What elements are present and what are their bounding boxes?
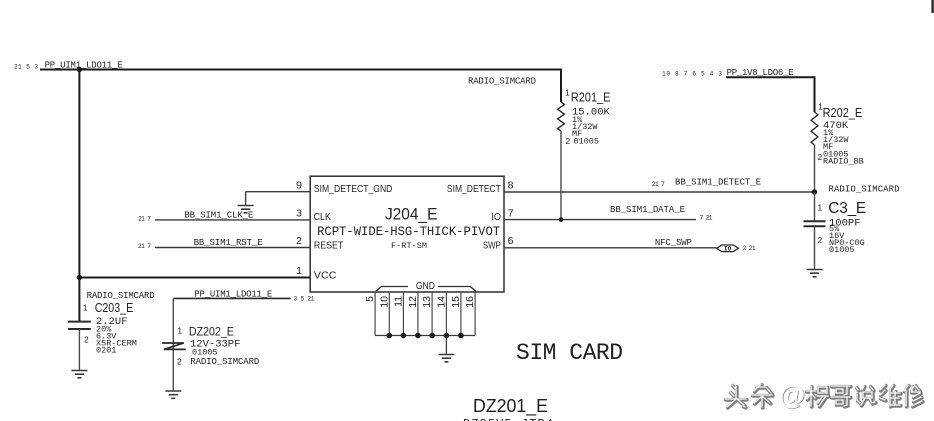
svg-text:10 8 7 6 5 4 3: 10 8 7 6 5 4 3 xyxy=(662,71,722,78)
wire GND pin 11 xyxy=(402,292,404,336)
svg-text:IO: IO xyxy=(724,246,732,253)
svg-text:11: 11 xyxy=(392,296,404,307)
junction GND bus xyxy=(401,333,407,339)
watermark 头条@杨哥说维修 xyxy=(726,385,923,408)
wire RESET pin 2 BB_SIM1_RST_E xyxy=(155,247,310,249)
svg-text:SIM CARD: SIM CARD xyxy=(516,340,623,366)
svg-text:2: 2 xyxy=(84,334,89,344)
zener diode DZ202_E symbol xyxy=(162,343,186,349)
svg-text:CLK: CLK xyxy=(314,211,331,223)
wire IO pin 7 BB_SIM1_DATA_E xyxy=(504,219,696,221)
wire PP_UIM1_LDO11_E horizontal top xyxy=(40,69,561,71)
junction at VCC branch xyxy=(77,275,82,280)
svg-text:21 5 3: 21 5 3 xyxy=(14,64,38,71)
svg-text:SIM_DETECT_GND: SIM_DETECT_GND xyxy=(314,183,393,195)
svg-text:RADIO_SIMCARD: RADIO_SIMCARD xyxy=(829,184,900,194)
svg-text:BB_SIM1_CLK_E: BB_SIM1_CLK_E xyxy=(184,211,253,221)
svg-text:RADIO_SIMCARD: RADIO_SIMCARD xyxy=(87,291,155,301)
wire CLK pin 3 BB_SIM1_CLK_E xyxy=(155,219,310,221)
wire C203 pin 2 to ground xyxy=(78,329,80,371)
svg-text:VCC: VCC xyxy=(314,269,337,281)
svg-text:SWP: SWP xyxy=(483,239,501,251)
svg-text:21 7: 21 7 xyxy=(138,243,151,250)
svg-text:21 7: 21 7 xyxy=(138,215,151,222)
svg-text:9: 9 xyxy=(296,179,302,191)
svg-text:DZ201_E: DZ201_E xyxy=(473,395,548,417)
junction GND bus xyxy=(415,333,421,339)
wire pin 9 SIM_DETECT_GND stub xyxy=(246,191,311,193)
svg-text:7: 7 xyxy=(508,208,514,220)
svg-text:12: 12 xyxy=(407,296,419,308)
svg-text:5: 5 xyxy=(364,296,376,302)
svg-text:2 21: 2 21 xyxy=(743,245,756,252)
resistor R201_E xyxy=(558,102,565,131)
capacitor C203_E xyxy=(68,322,91,329)
ground below DZ202 xyxy=(165,391,181,398)
svg-text:01005: 01005 xyxy=(574,137,600,147)
wire GND bus to ground symbol xyxy=(445,336,447,355)
svg-text:21 7: 21 7 xyxy=(652,181,665,188)
junction GND bus xyxy=(429,333,435,339)
svg-text:BB_SIM1_DATA_E: BB_SIM1_DATA_E xyxy=(610,205,685,215)
svg-text:J204_E: J204_E xyxy=(385,206,438,224)
svg-text:BB_SIM1_RST_E: BB_SIM1_RST_E xyxy=(194,238,263,248)
svg-text:RADIO_SIMCARD: RADIO_SIMCARD xyxy=(468,77,536,87)
wire GND pin 16 xyxy=(474,292,476,336)
svg-text:10: 10 xyxy=(378,296,390,308)
svg-text:3: 3 xyxy=(296,208,302,220)
junction at PP_UIM1_LDO11_E / vertical branch xyxy=(77,67,82,72)
wire junction to C3 pin 1 xyxy=(814,192,816,221)
svg-text:7 21: 7 21 xyxy=(700,215,713,222)
junction GND bus xyxy=(387,333,393,339)
svg-text:1: 1 xyxy=(177,326,182,336)
wire R202 pin 2 to junction xyxy=(814,145,816,192)
wire VCC to J204 pin 1 xyxy=(79,277,310,279)
ground below J204 xyxy=(438,355,454,362)
svg-text:2: 2 xyxy=(566,136,571,146)
wire drop to R202 pin 1 xyxy=(814,76,816,112)
svg-text:F-RT-SM: F-RT-SM xyxy=(391,241,427,251)
svg-text:RESET: RESET xyxy=(314,239,344,251)
svg-text:DZ202_E: DZ202_E xyxy=(189,327,234,339)
junction GND bus xyxy=(458,333,464,339)
svg-text:RADIO_SIMCARD: RADIO_SIMCARD xyxy=(190,357,259,367)
svg-text:1: 1 xyxy=(83,303,88,313)
wire GND pin 10 xyxy=(388,292,390,336)
svg-text:3 5 21: 3 5 21 xyxy=(294,296,315,303)
svg-text:IO: IO xyxy=(491,211,501,223)
wire GND pin 12 xyxy=(417,292,419,336)
connector J204_E body xyxy=(310,176,504,292)
junction GND bus xyxy=(444,333,450,339)
svg-text:2: 2 xyxy=(818,235,823,245)
svg-text:SIM_DETECT: SIM_DETECT xyxy=(447,183,501,195)
wire GND bus below J204 xyxy=(375,335,475,337)
svg-text:15: 15 xyxy=(450,296,462,308)
svg-text:6: 6 xyxy=(508,235,514,247)
svg-text:1: 1 xyxy=(565,88,570,98)
ground below C3 xyxy=(807,270,823,277)
svg-text:0201: 0201 xyxy=(96,346,116,356)
wire pin 9 down to ground xyxy=(245,192,247,206)
junction R201 / BB_SIM1_DATA_E xyxy=(559,217,564,222)
svg-text:2: 2 xyxy=(177,357,182,367)
wire C3 pin 2 to ground xyxy=(814,226,816,269)
wire GND pin 5 xyxy=(374,292,376,336)
svg-text:2: 2 xyxy=(818,152,823,162)
svg-text:13: 13 xyxy=(421,296,433,308)
wire PP_UIM1_LDO11_E stub at DZ202 xyxy=(173,297,290,299)
svg-text:1: 1 xyxy=(818,203,823,213)
svg-text:2: 2 xyxy=(296,235,302,247)
GND group brace xyxy=(376,287,476,292)
svg-text:BB_SIM1_DETECT_E: BB_SIM1_DETECT_E xyxy=(675,178,761,188)
svg-text:R201_E: R201_E xyxy=(571,91,611,105)
wire DZ202 vertical xyxy=(172,298,174,390)
svg-text:RADIO_BB: RADIO_BB xyxy=(823,157,864,167)
resistor R202_E xyxy=(811,112,818,145)
wire drop to R201 pin 1 xyxy=(560,69,562,103)
svg-text:RCPT-WIDE-HSG-THICK-PIVOT: RCPT-WIDE-HSG-THICK-PIVOT xyxy=(317,225,500,239)
svg-text:DZ25V5-JTB4: DZ25V5-JTB4 xyxy=(463,417,553,421)
wire fragment at top right edge xyxy=(931,0,933,13)
svg-text:01005: 01005 xyxy=(829,245,855,255)
svg-text:14: 14 xyxy=(435,296,447,308)
wire GND pin 13 xyxy=(431,292,433,336)
svg-text:@: @ xyxy=(779,380,805,410)
wire GND pin 15 xyxy=(460,292,462,336)
svg-text:8: 8 xyxy=(508,180,514,192)
wire PP_1V8_LDO6_E horizontal xyxy=(726,76,815,78)
capacitor C3_E xyxy=(804,221,826,226)
svg-text:01005: 01005 xyxy=(192,348,218,358)
wire vertical PP_UIM1_LDO11_E to VCC and C203 xyxy=(78,70,80,322)
ground at pin 9 xyxy=(238,206,254,213)
ground below C203 xyxy=(71,371,87,378)
svg-text:C3_E: C3_E xyxy=(828,200,866,217)
wire GND pin 14 xyxy=(445,292,447,336)
svg-text:C203_E: C203_E xyxy=(95,301,134,315)
svg-text:R202_E: R202_E xyxy=(823,106,863,120)
svg-text:NFC_SWP: NFC_SWP xyxy=(655,238,692,248)
svg-text:GND: GND xyxy=(416,280,435,292)
junction BB_SIM1_DETECT_E / R202 / C3 xyxy=(812,189,817,194)
wire SWP pin 6 NFC_SWP xyxy=(504,247,717,249)
svg-text:1: 1 xyxy=(296,265,302,277)
IO port bubble on NFC_SWP xyxy=(717,245,739,252)
wire R201 pin 2 to BB_SIM1_DATA_E xyxy=(560,131,562,220)
svg-text:16: 16 xyxy=(464,296,476,308)
wire SIM_DETECT pin 8 to junction xyxy=(504,191,815,193)
